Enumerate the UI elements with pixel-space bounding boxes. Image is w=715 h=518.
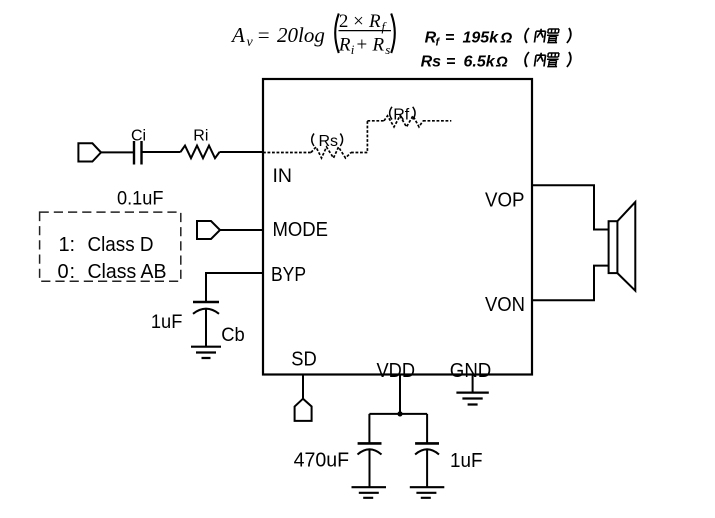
svg-text:Cb: Cb xyxy=(221,324,245,346)
svg-text:Class AB: Class AB xyxy=(88,261,167,283)
wire Ri to IN pin xyxy=(220,151,264,153)
wire VDD branch xyxy=(369,414,427,444)
note Rs = 6.5k ohm (built-in) xyxy=(421,54,508,71)
ground (Cb) xyxy=(191,347,221,358)
svg-text:GND: GND xyxy=(450,360,492,382)
svg-text:470uF: 470uF xyxy=(294,450,350,472)
CJK (built-in) line1 xyxy=(524,28,572,43)
svg-text:6.5k: 6.5k xyxy=(464,54,496,71)
svg-text:R: R xyxy=(368,11,381,32)
svg-text:SD: SD xyxy=(291,348,317,370)
wire VOP to speaker xyxy=(532,185,609,229)
svg-text:IN: IN xyxy=(273,165,293,187)
ground (C2) xyxy=(410,487,445,498)
svg-text:MODE: MODE xyxy=(273,219,329,241)
wire VDD down xyxy=(399,375,401,414)
IC U1 body xyxy=(263,79,532,375)
internal dotted wire IN to Rs xyxy=(263,152,311,154)
svg-text:0: 0 xyxy=(58,261,69,283)
svg-text:Ri: Ri xyxy=(193,127,208,144)
capacitor C1 470uF xyxy=(358,442,382,445)
CJK (built-in) line2 xyxy=(524,52,572,67)
mode port P2 xyxy=(197,221,220,239)
svg-text:=: = xyxy=(446,54,455,71)
capacitor Ci xyxy=(134,141,142,165)
dotted wire after Rf xyxy=(423,120,451,122)
svg-text:Rs: Rs xyxy=(421,54,442,71)
wire mode port to MODE pin xyxy=(220,229,263,231)
svg-text:A: A xyxy=(230,23,245,47)
note Rf = 195k ohm (built-in) xyxy=(425,30,513,49)
resistor Ri xyxy=(181,146,220,159)
svg-text:1uF: 1uF xyxy=(151,311,183,333)
ground (GND pin) xyxy=(456,393,488,405)
dashed option box xyxy=(40,212,181,281)
svg-text:=: = xyxy=(258,23,270,47)
svg-text:Ω: Ω xyxy=(500,30,513,47)
svg-text:VON: VON xyxy=(485,294,525,316)
label (Rf) xyxy=(390,107,392,120)
wire Ci to Ri xyxy=(143,151,181,153)
wire BYP to Cb xyxy=(206,273,263,302)
SD port P3 xyxy=(295,399,312,421)
junction node xyxy=(397,411,402,416)
wire Cb to ground xyxy=(205,310,207,347)
svg-text:1: 1 xyxy=(59,234,70,256)
label (Rs) xyxy=(312,134,314,147)
svg-text:Rs: Rs xyxy=(319,133,339,150)
svg-text:Ω: Ω xyxy=(495,54,508,71)
dotted wire Rs to Rf with jog xyxy=(351,121,384,153)
formula Av = 20log(2xRf/(Ri+Rs)) xyxy=(230,11,395,57)
svg-text:Class D: Class D xyxy=(88,234,154,256)
internal resistor Rs (dotted) xyxy=(311,147,351,158)
wire port to Ci xyxy=(101,151,133,153)
svg-text:v: v xyxy=(247,35,254,50)
svg-text:+: + xyxy=(357,35,368,56)
svg-text::: : xyxy=(70,234,76,256)
input port P1 xyxy=(78,143,101,161)
ground (C1) xyxy=(352,487,387,498)
svg-text:i: i xyxy=(351,42,355,57)
svg-text:=: = xyxy=(445,30,454,47)
svg-text:195k: 195k xyxy=(463,30,500,47)
capacitor Cb xyxy=(193,301,219,304)
speaker LS1 xyxy=(609,221,618,273)
svg-text:s: s xyxy=(385,42,390,57)
svg-text:Rf: Rf xyxy=(393,106,410,123)
svg-text:1uF: 1uF xyxy=(450,450,483,472)
svg-text:VOP: VOP xyxy=(485,189,525,211)
svg-text:0.1uF: 0.1uF xyxy=(117,187,164,209)
wire SD pin down xyxy=(302,375,304,399)
svg-text:VDD: VDD xyxy=(377,360,416,382)
wire VON to speaker xyxy=(532,266,609,301)
svg-text:R: R xyxy=(372,35,385,56)
svg-text:Ci: Ci xyxy=(131,127,146,144)
wire GND pin down xyxy=(472,375,474,393)
capacitor C2 1uF xyxy=(415,442,439,445)
svg-text:BYP: BYP xyxy=(271,264,306,286)
internal resistor Rf (dotted) xyxy=(384,116,423,127)
svg-text:R: R xyxy=(338,35,351,56)
svg-text:20log: 20log xyxy=(277,23,325,47)
svg-text:2 ×: 2 × xyxy=(339,11,364,32)
svg-text::: : xyxy=(70,261,76,283)
